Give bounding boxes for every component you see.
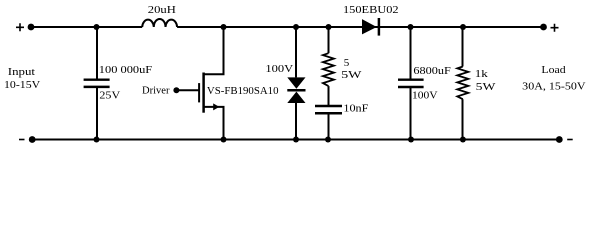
svg-text:Load: Load [541,64,566,76]
svg-text:100V: 100V [412,90,438,102]
capacitor C2 6800uF [410,27,412,80]
transistor Q1 channel bar [202,73,205,113]
node C2 top junction [408,24,414,30]
svg-text:10nF: 10nF [343,103,368,115]
node RC bottom junction [325,137,331,143]
diode D1 150EBU02 triangle [362,19,377,34]
diode D2 TVS 100V top lead [295,27,297,77]
wire top bus left segment [31,26,142,28]
wire gate lead [176,89,199,91]
diode D2 TVS lower triangle [287,92,305,103]
input terminal - (bottom left) [29,136,36,143]
node R2 bottom junction [460,137,466,143]
svg-text:5W: 5W [341,69,362,81]
svg-text:150EBU02: 150EBU02 [343,4,399,16]
svg-text:Input: Input [8,66,35,78]
wire top bus right segment [177,26,543,28]
node source bottom junction [221,137,227,143]
resistor R1 zigzag [323,53,334,86]
node RC top junction [326,24,332,30]
svg-text:VS-FB190SA10: VS-FB190SA10 [207,85,279,97]
svg-text:25V: 25V [99,90,120,102]
svg-text:6800uF: 6800uF [413,65,450,77]
svg-text:1k: 1k [475,68,489,80]
resistor R1 5 ohm top lead [328,27,330,53]
diode D1 cathode bar [378,18,381,36]
transistor Q1 VS-FB190SA10 gate bar [198,83,200,102]
wire R1 to C3 [328,86,330,106]
output terminal - (bottom right) [556,136,563,143]
capacitor C1 100 000uF [96,27,98,80]
diode D2 TVS bottom lead [295,103,297,140]
inductor L1 20uH [142,19,177,27]
node A (C1 top junction) [94,24,100,30]
diode D2 TVS upper triangle [287,77,305,88]
transistor Q1 source lead [204,107,224,140]
node TVS top junction [293,24,299,30]
svg-text:20uH: 20uH [148,4,176,16]
svg-text:5: 5 [344,57,350,69]
resistor R2 bottom lead [462,99,464,139]
diode D2 TVS middle bar [287,89,305,92]
node R2 top junction [460,24,466,30]
resistor R2 1k top lead [462,27,464,67]
svg-text:30A, 15-50V: 30A, 15-50V [522,80,585,92]
node TVS bottom junction [293,137,299,143]
svg-text:100 000uF: 100 000uF [99,64,152,76]
driver terminal dot [173,87,179,93]
svg-text:Driver: Driver [142,84,170,96]
svg-text:100V: 100V [265,63,293,75]
wire bottom bus [32,139,559,141]
capacitor C3 10nF [315,105,342,108]
node A bottom junction [94,137,100,143]
transistor Q1 drain lead [204,27,224,74]
node C2 bottom junction [408,137,414,143]
resistor R2 zigzag [457,67,468,100]
node drain top junction [221,24,227,30]
transistor Q1 source arrow [213,103,219,110]
output terminal + (top right) [540,24,547,31]
svg-text:10-15V: 10-15V [4,79,40,91]
input terminal + (top left) [28,24,35,31]
svg-text:5W: 5W [476,81,497,93]
